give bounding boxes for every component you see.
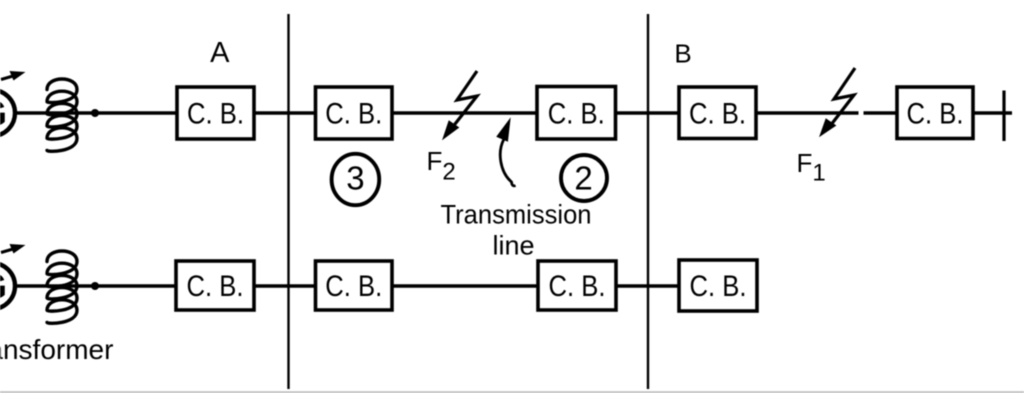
circuit breaker CB6 (bottom, left of bus A)	[176, 261, 254, 310]
rotation arrow (bottom generator)	[1, 244, 26, 254]
circuit breaker CB2 (top, right of bus A)	[316, 87, 393, 139]
svg-text:C. B.: C. B.	[907, 97, 964, 130]
circuit breaker CB3 (top, left of bus B)	[537, 87, 616, 140]
svg-text:line: line	[492, 231, 534, 261]
svg-text:A: A	[210, 37, 230, 69]
wire top row: bus B to terminal	[648, 111, 1012, 114]
transformer winding (top)	[47, 79, 77, 151]
relay 3	[332, 154, 380, 205]
scan edge at bottom	[0, 391, 1024, 393]
generator G (top)	[0, 90, 15, 136]
svg-text:C. B.: C. B.	[187, 270, 244, 303]
svg-text:Transmission: Transmission	[441, 200, 592, 230]
junction node (bottom)	[91, 282, 99, 290]
wire top row: generator to bus A	[14, 111, 288, 114]
svg-text:B: B	[674, 39, 691, 69]
circuit breaker CB9 (bottom, right of bus B)	[679, 260, 757, 311]
svg-text:C. B.: C. B.	[549, 270, 606, 303]
circuit breaker CB1 (top, left of bus A)	[177, 87, 254, 139]
circuit breaker CB5 (top, far right)	[897, 87, 973, 139]
svg-text:C. B.: C. B.	[325, 98, 382, 131]
wire top row: bus A to bus B (transmission line)	[288, 111, 648, 114]
svg-text:Transformer: Transformer	[0, 334, 113, 365]
wire break artifact left of CB5	[859, 109, 864, 118]
wire bottom row: bus A to bus B	[288, 284, 648, 287]
transformer winding (bottom)	[47, 251, 77, 323]
svg-text:G: G	[0, 93, 7, 134]
wire bottom row: generator to bus A	[14, 284, 288, 287]
fault bolt F2	[443, 71, 477, 139]
svg-text:3: 3	[346, 160, 364, 197]
generator G (bottom)	[0, 263, 15, 309]
svg-text:C. B.: C. B.	[548, 97, 605, 130]
junction node (top)	[91, 109, 99, 117]
circuit breaker CB4 (top, right of bus B)	[679, 87, 756, 139]
circuit breaker CB8 (bottom, left of bus B)	[538, 261, 616, 310]
svg-text:C. B.: C. B.	[689, 97, 746, 130]
wire bottom row: bus B to last breaker	[648, 284, 680, 287]
terminal bar (right end)	[1002, 91, 1005, 142]
bus B	[647, 14, 649, 389]
circuit breaker CB7 (bottom, right of bus A)	[316, 261, 393, 310]
rotation arrow (top generator)	[1, 71, 26, 81]
bus A	[287, 14, 289, 389]
svg-text:G: G	[0, 266, 7, 307]
svg-text:2: 2	[574, 160, 592, 197]
arrow pointing at transmission line	[497, 119, 516, 186]
svg-text:C. B.: C. B.	[187, 98, 244, 131]
fault bolt F1	[820, 68, 855, 136]
svg-text:C. B.: C. B.	[325, 270, 382, 303]
svg-text:C. B.: C. B.	[690, 270, 747, 303]
relay 2	[561, 155, 607, 201]
